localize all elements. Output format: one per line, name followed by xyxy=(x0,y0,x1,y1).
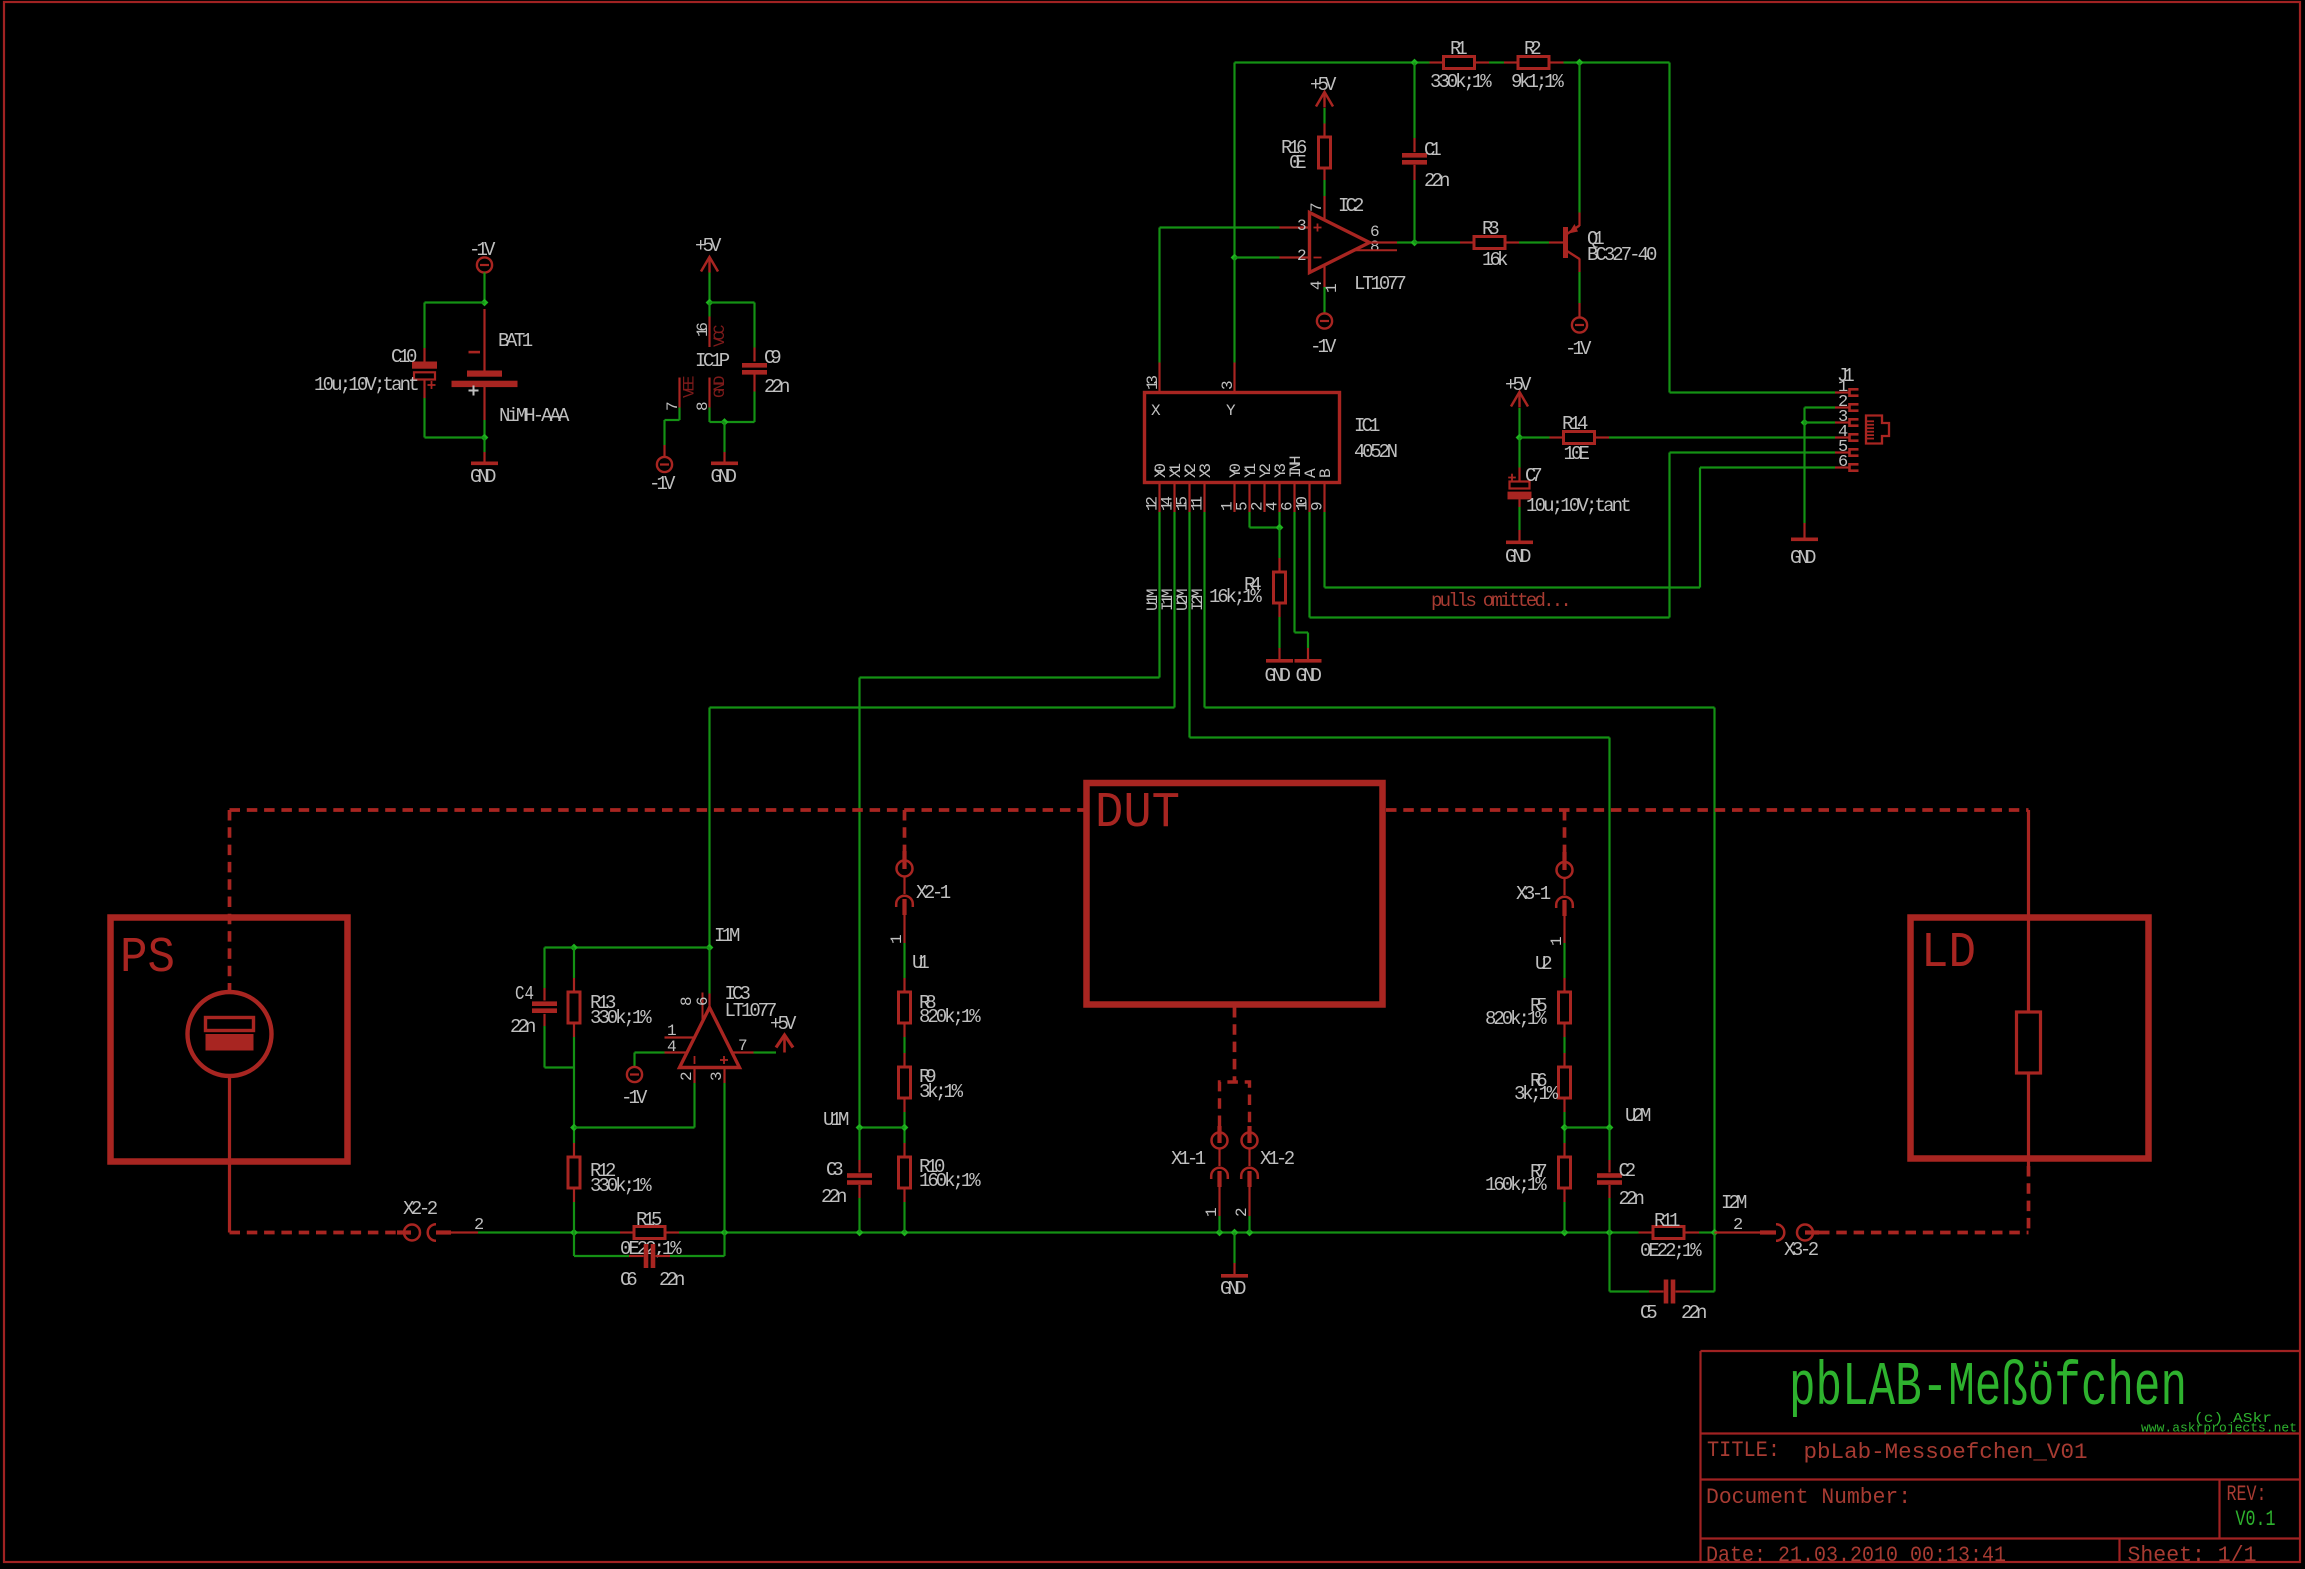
svg-text:0E22;1%: 0E22;1% xyxy=(1640,1240,1702,1262)
svg-text:X3-2: X3-2 xyxy=(1784,1239,1819,1261)
svg-text:C4: C4 xyxy=(515,983,534,1005)
svg-text:3k;1%: 3k;1% xyxy=(919,1081,964,1103)
svg-text:7: 7 xyxy=(738,1037,748,1055)
svg-text:X3-1: X3-1 xyxy=(1516,883,1551,905)
svg-text:-1V: -1V xyxy=(1310,336,1337,358)
svg-text:GND: GND xyxy=(711,466,737,488)
svg-text:DUT: DUT xyxy=(1095,785,1180,842)
svg-text:NiMH-AAA: NiMH-AAA xyxy=(499,405,570,427)
svg-text:LT1077: LT1077 xyxy=(1354,273,1407,295)
svg-text:22n: 22n xyxy=(821,1186,847,1208)
svg-text:330k;1%: 330k;1% xyxy=(1430,71,1492,93)
svg-text:9: 9 xyxy=(1309,501,1327,511)
svg-text:2: 2 xyxy=(1233,1207,1251,1217)
svg-text:16: 16 xyxy=(694,322,712,337)
svg-text:3: 3 xyxy=(1297,217,1307,235)
svg-text:+5V: +5V xyxy=(695,235,722,257)
svg-text:U1M: U1M xyxy=(823,1109,849,1131)
svg-text:8: 8 xyxy=(1370,238,1380,256)
svg-text:2: 2 xyxy=(1297,247,1307,265)
svg-text:2: 2 xyxy=(1733,1216,1743,1235)
svg-text:C10: C10 xyxy=(391,346,417,368)
svg-text:C5: C5 xyxy=(1640,1302,1658,1324)
svg-text:7: 7 xyxy=(1308,202,1326,212)
svg-text:GND: GND xyxy=(711,376,729,399)
svg-text:6: 6 xyxy=(694,996,712,1006)
svg-text:GND: GND xyxy=(1505,546,1531,568)
svg-text:GND: GND xyxy=(470,466,496,488)
svg-text:X1-2: X1-2 xyxy=(1260,1148,1295,1170)
svg-text:9k1;1%: 9k1;1% xyxy=(1511,71,1564,93)
svg-text:R11: R11 xyxy=(1654,1210,1680,1232)
svg-text:V0.1: V0.1 xyxy=(2236,1507,2276,1532)
svg-text:1: 1 xyxy=(1548,936,1566,946)
svg-text:6: 6 xyxy=(1838,453,1848,472)
svg-text:GND: GND xyxy=(1790,547,1816,569)
svg-text:GND: GND xyxy=(1220,1278,1246,1300)
svg-text:22n: 22n xyxy=(659,1269,685,1291)
svg-text:+5V: +5V xyxy=(770,1013,797,1035)
svg-text:IC1: IC1 xyxy=(1354,415,1380,437)
svg-text:R14: R14 xyxy=(1562,413,1588,435)
svg-text:1: 1 xyxy=(888,934,906,944)
svg-text:1: 1 xyxy=(1323,283,1341,293)
svg-text:LD: LD xyxy=(1921,925,1976,982)
svg-text:-1V: -1V xyxy=(649,473,676,495)
svg-text:13: 13 xyxy=(1144,375,1162,390)
svg-text:IC2: IC2 xyxy=(1338,195,1364,217)
svg-text:C6: C6 xyxy=(620,1269,638,1291)
svg-text:GND: GND xyxy=(1296,665,1322,687)
svg-text:-1V: -1V xyxy=(1565,338,1592,360)
svg-text:IC1P: IC1P xyxy=(695,350,730,372)
svg-text:160k;1%: 160k;1% xyxy=(1485,1174,1547,1196)
svg-text:pulls omitted...: pulls omitted... xyxy=(1431,590,1572,612)
svg-text:330k;1%: 330k;1% xyxy=(590,1175,652,1197)
svg-text:X1-1: X1-1 xyxy=(1171,1148,1206,1170)
svg-text:Date: 21.03.2010 00:13:41: Date: 21.03.2010 00:13:41 xyxy=(1706,1543,2006,1568)
svg-text:22n: 22n xyxy=(764,376,790,398)
svg-text:I2M: I2M xyxy=(1721,1192,1747,1214)
svg-text:820k;1%: 820k;1% xyxy=(919,1006,981,1028)
svg-text:C1: C1 xyxy=(1424,139,1442,161)
svg-text:3k;1%: 3k;1% xyxy=(1514,1083,1559,1105)
svg-text:16k;1%: 16k;1% xyxy=(1209,586,1262,608)
svg-text:pbLab-Messoefchen_V01: pbLab-Messoefchen_V01 xyxy=(1804,1440,2088,1465)
svg-text:2: 2 xyxy=(678,1071,696,1081)
svg-text:3: 3 xyxy=(1219,380,1237,390)
svg-text:16k: 16k xyxy=(1482,249,1508,271)
svg-text:22n: 22n xyxy=(510,1016,536,1038)
svg-text:C7: C7 xyxy=(1525,465,1543,487)
svg-text:11: 11 xyxy=(1189,496,1207,511)
svg-text:1: 1 xyxy=(1203,1207,1221,1217)
svg-text:-1V: -1V xyxy=(621,1087,648,1109)
svg-text:X3: X3 xyxy=(1197,463,1215,478)
svg-text:X2-1: X2-1 xyxy=(916,882,951,904)
svg-text:BC327-40: BC327-40 xyxy=(1587,244,1657,266)
svg-text:22n: 22n xyxy=(1619,1188,1645,1210)
svg-text:4052N: 4052N xyxy=(1354,441,1398,463)
svg-text:C3: C3 xyxy=(826,1159,844,1181)
svg-text:820k;1%: 820k;1% xyxy=(1485,1008,1547,1030)
svg-text:I2M: I2M xyxy=(1189,589,1207,612)
svg-text:VEE: VEE xyxy=(681,376,699,399)
svg-text:R1: R1 xyxy=(1450,38,1468,60)
svg-text:3: 3 xyxy=(708,1071,726,1081)
svg-text:22n: 22n xyxy=(1424,170,1450,192)
svg-text:pbLAB-Meßöfchen: pbLAB-Meßöfchen xyxy=(1789,1352,2187,1423)
svg-text:X: X xyxy=(1151,402,1161,420)
svg-text:10u;10V;tant: 10u;10V;tant xyxy=(314,374,420,396)
svg-text:REV:: REV: xyxy=(2227,1482,2267,1507)
svg-text:330k;1%: 330k;1% xyxy=(590,1007,652,1029)
svg-text:U2M: U2M xyxy=(1625,1105,1651,1127)
svg-text:R2: R2 xyxy=(1524,38,1542,60)
svg-text:U2: U2 xyxy=(1535,953,1553,975)
svg-text:C2: C2 xyxy=(1619,1160,1637,1182)
svg-text:BAT1: BAT1 xyxy=(498,330,533,352)
svg-text:B: B xyxy=(1317,468,1335,478)
svg-text:TITLE:: TITLE: xyxy=(1707,1438,1780,1463)
svg-text:I1M: I1M xyxy=(714,925,740,947)
svg-text:U1: U1 xyxy=(912,952,930,974)
svg-text:160k;1%: 160k;1% xyxy=(919,1170,981,1192)
svg-text:0E: 0E xyxy=(1289,152,1307,174)
svg-text:4: 4 xyxy=(667,1038,677,1056)
svg-text:R15: R15 xyxy=(636,1209,662,1231)
svg-text:C9: C9 xyxy=(764,347,782,369)
svg-text:www.askrprojects.net: www.askrprojects.net xyxy=(2141,1422,2297,1436)
svg-text:PS: PS xyxy=(120,930,175,987)
svg-text:VCC: VCC xyxy=(711,325,729,348)
svg-text:Sheet: 1/1: Sheet: 1/1 xyxy=(2128,1543,2257,1568)
svg-text:GND: GND xyxy=(1265,665,1291,687)
svg-text:R3: R3 xyxy=(1482,218,1500,240)
svg-text:22n: 22n xyxy=(1681,1302,1707,1324)
svg-text:X2-2: X2-2 xyxy=(403,1198,438,1220)
svg-text:Y: Y xyxy=(1226,402,1236,420)
svg-text:10u;10V;tant: 10u;10V;tant xyxy=(1526,495,1632,517)
svg-text:Document Number:: Document Number: xyxy=(1706,1485,1911,1510)
svg-text:10E: 10E xyxy=(1564,443,1590,465)
